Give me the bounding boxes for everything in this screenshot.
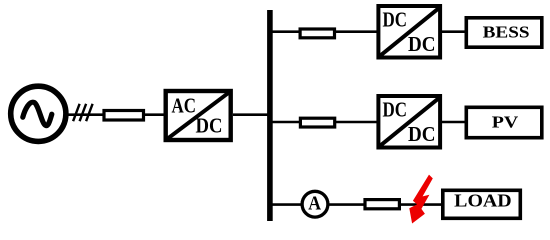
wire W1: source to three-phase marks bbox=[66, 113, 103, 116]
wire W3: AC/DC to DC bus bbox=[233, 113, 270, 116]
svg-text:PV: PV bbox=[492, 112, 519, 131]
AC/DC converter U1 bbox=[166, 91, 231, 140]
wire W8: Z3 to DC/DC converter U3 bbox=[335, 121, 378, 124]
DC bus bar bbox=[267, 10, 273, 221]
svg-text:A: A bbox=[308, 193, 321, 215]
svg-text:LOAD: LOAD bbox=[454, 190, 512, 210]
svg-text:DC: DC bbox=[196, 113, 223, 137]
wire W7: bus to Z3 (PV branch) bbox=[272, 121, 299, 124]
svg-text:DC: DC bbox=[383, 7, 408, 31]
PV block bbox=[466, 107, 542, 137]
fault lightning bolt F1 bbox=[409, 175, 433, 224]
svg-text:DC: DC bbox=[408, 32, 436, 56]
line impedance Z2 bbox=[300, 29, 334, 38]
line impedance Z4 bbox=[365, 200, 399, 209]
wire W11: ammeter to Z4 bbox=[328, 203, 364, 206]
BESS block bbox=[466, 18, 542, 47]
wire W2: Z1 to AC/DC converter bbox=[145, 113, 164, 116]
wire W9: U3 to PV bbox=[441, 121, 466, 124]
wire W5: Z2 to DC/DC converter U2 bbox=[335, 30, 378, 33]
DC/DC converter U2 bbox=[378, 6, 440, 58]
three-phase slash marks bbox=[73, 104, 93, 121]
line impedance Z3 bbox=[300, 118, 334, 127]
svg-text:DC: DC bbox=[408, 122, 436, 146]
svg-text:AC: AC bbox=[172, 93, 197, 117]
ammeter A1 bbox=[302, 191, 328, 217]
wire W6: U2 to BESS bbox=[441, 30, 466, 33]
AC source G1 circle bbox=[11, 86, 66, 141]
LOAD block bbox=[443, 190, 521, 218]
svg-text:DC: DC bbox=[383, 97, 408, 121]
DC/DC converter U3 bbox=[378, 96, 440, 148]
wire W10: bus to ammeter bbox=[272, 203, 302, 206]
wire W4: bus to Z2 (BESS branch) bbox=[272, 30, 299, 33]
svg-text:BESS: BESS bbox=[483, 22, 530, 41]
AC source sine wave bbox=[23, 102, 52, 125]
line impedance Z1 bbox=[104, 111, 144, 121]
wire W12: Z4 to LOAD bbox=[401, 203, 443, 206]
